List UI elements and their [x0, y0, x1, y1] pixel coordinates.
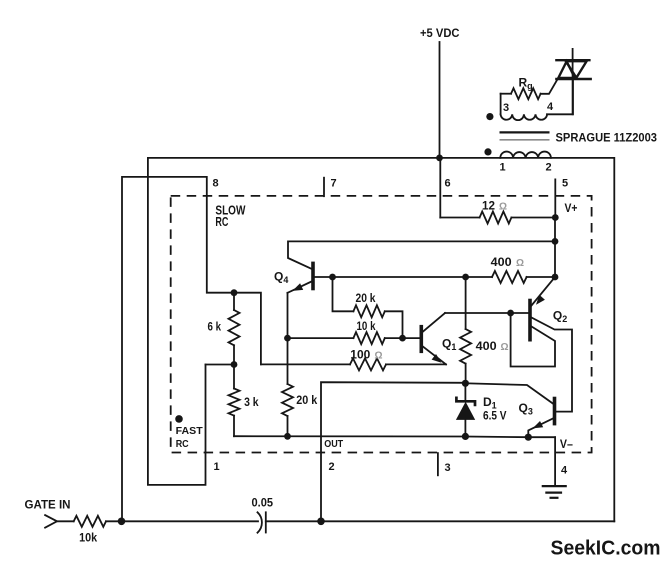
transformer phase dot (secondary) — [486, 113, 493, 120]
resistor 12 ohm — [440, 212, 555, 224]
junction 12ohm / pin5 / V+ — [552, 214, 559, 221]
transformer phase dot (primary) — [484, 148, 491, 155]
svg-text:2: 2 — [546, 162, 552, 174]
label Q4 — [274, 270, 288, 286]
node +5 VDC label — [420, 28, 460, 40]
pin 3 stub — [437, 453, 439, 475]
label Q3 — [519, 401, 533, 417]
pin 1 label (transformer) — [500, 162, 506, 174]
label 20 k (vertical) — [296, 393, 317, 407]
pin 4 label — [561, 464, 568, 476]
pin 2 label (transformer) — [546, 162, 552, 174]
triac — [556, 49, 590, 114]
wire Q4 collector to V+ rail — [288, 241, 555, 268]
transformer core lines — [500, 132, 550, 139]
wire Q1 collector to Q2 base — [445, 312, 529, 314]
junction D1 bottom / V- rail — [462, 433, 469, 440]
label FAST RC — [176, 425, 204, 450]
label 3 k — [244, 395, 259, 409]
pin 3 label (transformer) — [503, 102, 509, 114]
resistor 3k — [229, 365, 240, 437]
junction gate line / pin8 outer wire — [118, 518, 126, 526]
zener diode D1 6.5V — [456, 383, 475, 436]
resistor 400 ohm (horizontal) — [466, 271, 555, 283]
wire left loop down to pin 1 riser — [148, 158, 206, 485]
transformer T1 secondary winding (pins 3-4) — [501, 79, 573, 120]
svg-text:6: 6 — [445, 178, 451, 190]
svg-text:3: 3 — [445, 462, 451, 474]
svg-text:4: 4 — [547, 101, 554, 113]
wire OUT pin 2 riser — [321, 382, 465, 521]
svg-text:400: 400 — [491, 255, 512, 269]
pin 6 label — [445, 178, 451, 190]
svg-text:Ω: Ω — [375, 350, 383, 361]
transistor Q1 — [421, 313, 446, 364]
junction 400ohm left / Q4 base / 400ohm vert — [462, 274, 469, 281]
svg-text:V+: V+ — [565, 203, 578, 215]
transistor Q4 — [288, 262, 314, 293]
resistor 10k (gate) — [57, 516, 258, 527]
pin 7 stub — [323, 178, 325, 197]
wire 6k bottom to pin 1 riser — [206, 364, 235, 366]
svg-text:GATE IN: GATE IN — [25, 500, 71, 512]
svg-text:7: 7 — [331, 178, 337, 190]
wire top rail with transformer primary and right rail — [148, 158, 614, 521]
pin 4 wire to ground — [554, 437, 556, 486]
resistor 400 ohm (vertical) — [460, 277, 471, 383]
svg-text:Ω: Ω — [516, 258, 524, 269]
resistor Rg — [501, 79, 558, 99]
junction V+ rail / Q4 collector wire — [552, 238, 559, 245]
svg-text:400: 400 — [476, 339, 497, 353]
junction Q2 base / base-tie loop — [507, 310, 514, 317]
svg-text:RC: RC — [215, 214, 228, 229]
label SLOW RC — [215, 203, 246, 230]
label 20 k — [356, 291, 376, 305]
svg-text:FAST: FAST — [176, 425, 204, 437]
junction pin8 wire / 6k top / loop — [231, 289, 238, 296]
label V+ — [565, 203, 578, 215]
pin 7 label — [331, 178, 337, 190]
svg-text:SeekIC.com: SeekIC.com — [551, 538, 661, 560]
svg-text:5: 5 — [562, 178, 568, 190]
svg-text:+5 VDC: +5 VDC — [420, 28, 460, 40]
junction 10k/20k right / Q1 base — [399, 335, 406, 342]
svg-text:2: 2 — [329, 461, 335, 473]
svg-text:1: 1 — [214, 461, 220, 473]
pin 5 stub — [554, 179, 556, 217]
svg-text:3 k: 3 k — [244, 395, 259, 409]
svg-text:Ω: Ω — [501, 342, 509, 353]
label GATE IN — [25, 500, 71, 512]
label 0.05 — [252, 495, 274, 509]
transformer T1 primary winding (pins 1-2) — [500, 152, 551, 158]
junction Q4 base / 20k — [329, 274, 336, 281]
ground — [543, 486, 566, 498]
capacitor 0.05 — [258, 512, 615, 532]
IC package dashed outline — [171, 196, 592, 453]
label 10k — [79, 531, 97, 545]
svg-text:100: 100 — [350, 347, 370, 361]
junction +5VDC / top wire / pin 6 — [436, 155, 443, 162]
svg-text:8: 8 — [213, 178, 219, 190]
resistor 20k (horizontal) — [333, 277, 403, 338]
svg-text:12: 12 — [482, 199, 495, 213]
wire +5VDC vertical feed — [439, 42, 441, 158]
svg-text:10 k: 10 k — [357, 319, 376, 333]
label OUT — [324, 438, 343, 450]
gate input chevron — [45, 515, 57, 528]
wire V+ rail vertical — [554, 218, 556, 278]
pin 1 label — [214, 461, 220, 473]
wire Q4 base line — [315, 276, 466, 278]
svg-text:V–: V– — [560, 439, 574, 451]
label 10 k — [357, 319, 376, 333]
junction 20k bottom / V- rail — [284, 433, 291, 440]
junction V+ rail / 400ohm / Q2 emitter — [552, 274, 559, 281]
junction 6k bottom / 3k top / pin1 branch — [231, 361, 238, 368]
svg-text:4: 4 — [561, 464, 568, 476]
svg-text:1: 1 — [500, 162, 506, 174]
label 400 ohm (horizontal) — [491, 255, 524, 269]
resistor 10k (horizontal) — [288, 332, 421, 344]
wire loop 6k top to 100 ohm — [234, 293, 261, 365]
junction gate line / pin 2 (OUT) — [317, 518, 325, 526]
svg-text:10k: 10k — [79, 531, 97, 545]
pin 8 stub and outer wire — [122, 177, 234, 521]
junction D1 top / OUT / Q3 collector — [462, 380, 469, 387]
transistor Q2 (PNP, dual collector) — [511, 277, 572, 412]
label Rg — [519, 76, 533, 92]
label Q2 — [553, 309, 567, 325]
svg-text:20 k: 20 k — [356, 291, 376, 305]
resistor 6k — [229, 293, 240, 365]
pin 5 label — [562, 178, 568, 190]
label SPRAGUE 11Z2003 — [556, 133, 658, 145]
label 12 ohm — [482, 199, 507, 213]
svg-text:6 k: 6 k — [208, 320, 222, 334]
pin 8 label — [213, 178, 219, 190]
junction Q3 emitter / V- rail — [525, 434, 532, 441]
pin 2 label — [329, 461, 335, 473]
label V- — [560, 439, 574, 451]
wire V- rail — [234, 436, 555, 437]
svg-text:RC: RC — [176, 438, 189, 450]
label D1 6.5 V — [25, 277, 661, 560]
resistor 20k (vertical) — [282, 384, 293, 436]
svg-text:SPRAGUE 11Z2003: SPRAGUE 11Z2003 — [556, 133, 658, 145]
pin 4 label (transformer) — [547, 101, 554, 113]
svg-text:0.05: 0.05 — [252, 495, 274, 509]
FAST RC terminal dot — [175, 415, 183, 423]
resistor 100 ohm — [261, 358, 446, 370]
label Q1 — [442, 337, 456, 353]
label 400 ohm (vertical) — [476, 339, 509, 353]
junction Q4 emitter / 10k left — [284, 335, 291, 342]
transistor Q3 — [465, 383, 554, 437]
svg-text:6.5 V: 6.5 V — [483, 408, 507, 422]
pin 6 stub — [439, 158, 441, 218]
svg-text:3: 3 — [503, 102, 509, 114]
svg-text:OUT: OUT — [324, 438, 343, 450]
svg-text:Ω: Ω — [499, 202, 507, 213]
wire Q4 emitter down — [287, 293, 289, 384]
label 100 ohm — [350, 347, 382, 361]
svg-text:20 k: 20 k — [296, 393, 317, 407]
label 6 k — [208, 320, 222, 334]
watermark SeekIC.com — [551, 538, 661, 560]
pin 3 label — [445, 462, 451, 474]
